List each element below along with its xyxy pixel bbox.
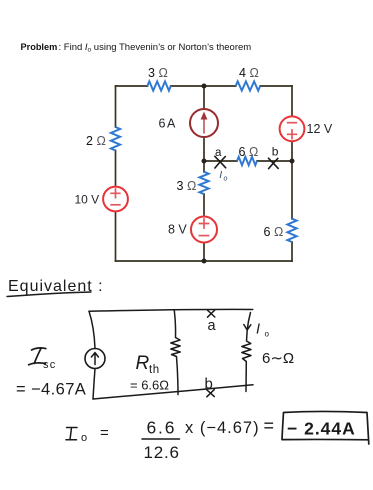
svg-text:I: I <box>256 322 260 338</box>
node bottom middle <box>202 259 207 264</box>
sketch right branch lower wire <box>245 362 247 392</box>
sketch current source arrow <box>91 353 98 365</box>
svg-text:a: a <box>208 318 217 334</box>
resistor 2ohm left <box>111 127 120 151</box>
svg-text:Problem: Problem <box>21 42 58 52</box>
voltage source 12V <box>280 116 305 141</box>
svg-text:sc: sc <box>43 359 56 371</box>
svg-text:6 Ω: 6 Ω <box>239 145 259 159</box>
sketch right resistor zigzag <box>242 330 251 362</box>
voltage source 10V <box>103 187 128 212</box>
wire mid vertical below 6A <box>203 137 205 161</box>
svg-text:= −4.67A: = −4.67A <box>16 381 86 399</box>
wire left below 10V <box>115 212 117 262</box>
resistor 3ohm top <box>147 81 170 90</box>
svg-text:− 2.44A: − 2.44A <box>287 419 356 439</box>
wire left between 2ohm and 10V <box>115 151 117 187</box>
answer box <box>282 412 369 444</box>
title <box>21 42 252 54</box>
svg-text:o: o <box>81 432 87 444</box>
wire mid horizontal left of 6ohm <box>204 160 237 162</box>
handwritten x mark at a on printed circuit <box>215 156 226 168</box>
wire top-left segment <box>116 85 148 87</box>
resistor 3ohm mid vertical <box>199 172 208 194</box>
sketch bottom wire <box>93 385 253 399</box>
voltage source 8V <box>191 217 217 243</box>
svg-text:4 Ω: 4 Ω <box>239 66 259 80</box>
resistors blue zigzags <box>111 81 297 242</box>
wire mid between 3ohm and 8V <box>203 194 205 216</box>
svg-text:6 Ω: 6 Ω <box>264 225 284 239</box>
wire right between 12V and 6ohm <box>291 141 293 219</box>
sketch right branch upper wire with arrow <box>247 313 250 331</box>
svg-text:12.6: 12.6 <box>144 443 180 462</box>
node mid-left of horizontal wire <box>202 159 207 164</box>
wire bottom rail <box>116 260 293 262</box>
svg-text:R: R <box>136 353 150 374</box>
sketch top wire <box>89 309 253 311</box>
wire top-middle segment <box>171 85 236 87</box>
wire left above 2ohm <box>115 86 117 127</box>
node mid-right of horizontal wire <box>290 159 295 164</box>
formula Io I-glyph <box>66 428 77 440</box>
resistor 4ohm top <box>236 81 261 90</box>
svg-text:o: o <box>265 330 270 339</box>
sketch middle resistor Rth zigzag <box>171 338 180 357</box>
svg-text:8 V: 8 V <box>168 223 187 237</box>
sketch left wire lower <box>93 369 95 400</box>
svg-text:2 Ω: 2 Ω <box>86 134 106 148</box>
sketch x mark at b bottom <box>207 390 215 397</box>
svg-text:3 Ω: 3 Ω <box>148 66 168 80</box>
svg-text:= 6.6Ω: = 6.6Ω <box>130 378 169 393</box>
svg-text:th: th <box>149 364 160 376</box>
svg-text:o: o <box>224 176 228 183</box>
sketch left wire upper <box>89 311 95 348</box>
wire mid horizontal right of 6ohm <box>257 160 292 162</box>
wire right below 6ohm <box>291 242 293 261</box>
sketch current source <box>85 349 105 369</box>
svg-text:6.6: 6.6 <box>147 418 177 438</box>
svg-text:x (−4.67): x (−4.67) <box>185 419 260 437</box>
svg-text:12 V: 12 V <box>307 122 333 136</box>
sketch middle branch upper wire <box>174 310 175 338</box>
handwritten x mark at b on printed circuit <box>268 158 278 168</box>
svg-text:I: I <box>219 169 222 181</box>
resistor 6ohm middle horizontal <box>237 157 257 165</box>
wire mid below 8V <box>203 243 205 262</box>
underline of Equivalent <box>7 292 91 297</box>
fraction bar <box>142 438 180 440</box>
node dots <box>202 84 295 264</box>
svg-text:b: b <box>272 145 279 159</box>
svg-text:a: a <box>215 147 222 159</box>
svg-text:10 V: 10 V <box>75 193 100 207</box>
svg-text:=: = <box>264 416 275 436</box>
current source 6A <box>190 109 218 137</box>
svg-text:6∼Ω: 6∼Ω <box>262 350 294 367</box>
wire mid vertical above 6A <box>203 86 205 109</box>
svg-text:=: = <box>100 425 109 442</box>
sketch arrow head Io <box>244 325 251 331</box>
node top middle <box>202 84 207 89</box>
svg-text:: Find Io using Thevenin’s or: : Find Io using Thevenin’s or Norton’s t… <box>59 42 252 54</box>
wire mid vertical 161 to 3ohm <box>203 161 205 172</box>
outer rectangle wires <box>116 86 293 261</box>
sketch middle branch lower wire <box>177 357 179 395</box>
svg-text:6A: 6A <box>159 117 177 131</box>
wire top-right segment <box>260 85 292 87</box>
label Isc <box>29 348 46 365</box>
svg-text:3 Ω: 3 Ω <box>177 179 197 193</box>
wire right above 12V <box>291 86 293 117</box>
sketch x mark at a top <box>208 310 215 317</box>
resistor 6ohm right <box>287 219 296 242</box>
svg-text:b: b <box>205 376 213 393</box>
